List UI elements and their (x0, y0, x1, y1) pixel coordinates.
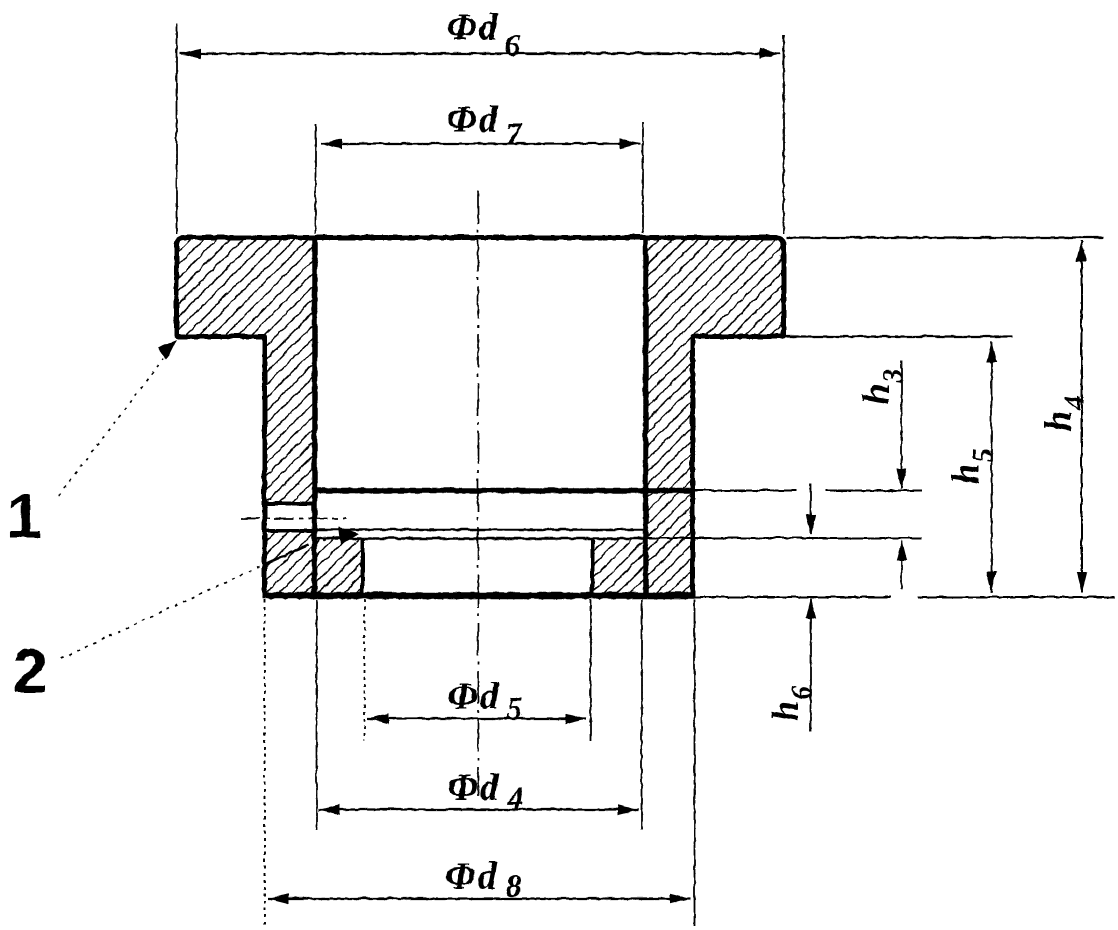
svg-text:7: 7 (505, 115, 523, 151)
extension line seat right for h3 (694, 489, 921, 491)
left wall slot bottom line (262, 528, 316, 532)
hatching right bottom block (592, 538, 645, 595)
bore wall left edge (311, 237, 317, 595)
dimension d6 (179, 48, 780, 58)
svg-text:6: 6 (786, 685, 817, 699)
svg-text:1: 1 (6, 481, 41, 551)
membrane bottom line (314, 537, 645, 539)
svg-text:h: h (945, 463, 987, 484)
dimension d5 (367, 713, 586, 723)
extension line flange bottom right for h5 (694, 335, 1012, 337)
extension line bottom x590 (589, 599, 591, 740)
dimension h5 (986, 341, 996, 592)
extension line d7 left (314, 123, 316, 233)
dimension h4 (1076, 240, 1086, 592)
extension line bottom x264 (263, 599, 265, 925)
leader 2 (60, 526, 358, 658)
bore bottom seat line (314, 487, 692, 493)
hole centerline (240, 517, 346, 519)
extension line bottom x364 (363, 599, 365, 740)
svg-text:6: 6 (504, 26, 520, 62)
membrane top line (314, 528, 645, 530)
svg-text:5: 5 (967, 448, 998, 462)
extension line bottom x694 (693, 599, 695, 925)
extension line d6 left (175, 23, 177, 233)
svg-text:3: 3 (877, 368, 908, 383)
svg-text:h: h (764, 700, 806, 721)
svg-text:Φd: Φd (447, 675, 500, 717)
label h6 (764, 685, 817, 721)
svg-text:Φd: Φd (446, 6, 499, 48)
bore wall right edge (642, 237, 648, 595)
svg-text:4: 4 (506, 779, 523, 815)
extension line d6 right (782, 34, 784, 233)
extension line bottom right (694, 596, 1114, 598)
extension line membrane right (645, 537, 921, 539)
hatching left bottom block (314, 538, 362, 595)
part outline outer (176, 237, 783, 595)
vertical centerline (477, 190, 479, 795)
svg-text:Φd: Φd (447, 766, 500, 808)
label h4 (1037, 395, 1090, 431)
dimension d4 (318, 804, 638, 814)
svg-text:h: h (855, 383, 897, 404)
extension line bottom x641 (640, 599, 642, 829)
extension line bottom x316 (315, 599, 317, 829)
svg-text:5: 5 (506, 689, 522, 725)
leader 1 (58, 339, 176, 495)
svg-text:4: 4 (1059, 395, 1090, 410)
svg-text:h: h (1037, 410, 1079, 431)
hatching left wall lower (264, 531, 314, 595)
svg-text:2: 2 (12, 636, 47, 706)
dimension d8 (267, 893, 690, 903)
extension line d7 right (641, 122, 643, 233)
svg-text:8: 8 (505, 867, 521, 903)
extension line top right for h4 (786, 236, 1103, 238)
hatching left wall upper (264, 336, 314, 503)
recess right wall (590, 538, 594, 595)
hatching left flange (176, 237, 314, 336)
svg-text:Φd: Φd (446, 98, 499, 140)
label h3 (855, 368, 908, 404)
svg-text:Φd: Φd (445, 855, 498, 897)
dimension d7 (320, 138, 640, 148)
part bottom line (262, 592, 694, 599)
dimension h3 (896, 360, 906, 589)
hatching right wall (645, 336, 692, 595)
hatching right flange (645, 237, 783, 336)
left wall slot top line (262, 501, 316, 505)
dimension h6 (805, 483, 815, 731)
label h5 (945, 448, 998, 484)
recess left wall (360, 538, 364, 595)
